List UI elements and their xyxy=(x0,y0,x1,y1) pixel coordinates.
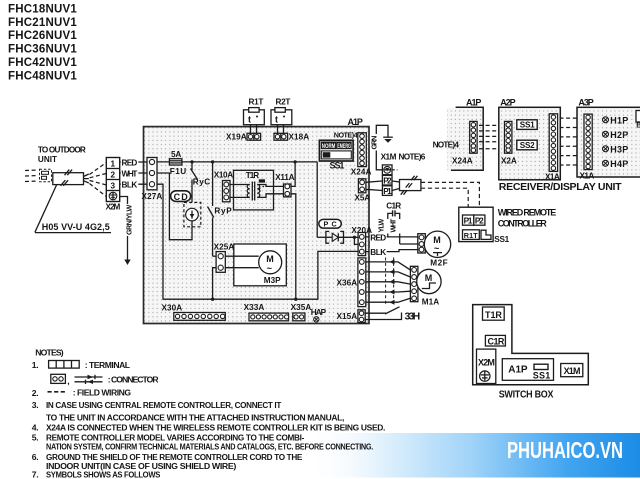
note 5 xyxy=(32,433,373,452)
svg-text:FHC26NUV1: FHC26NUV1 xyxy=(8,30,77,42)
svg-text:NATION SYSTEM, CONFIRM TECHNIC: NATION SYSTEM, CONFIRM TECHNICAL MATERIA… xyxy=(46,442,373,452)
svg-text:RED: RED xyxy=(370,233,386,242)
connector X24A (on A1P) xyxy=(351,133,372,177)
svg-text:t: t xyxy=(248,115,251,125)
wire WHT X2M to X27A xyxy=(120,169,147,179)
svg-text:H2P: H2P xyxy=(610,130,628,140)
svg-text:: TERMINAL: : TERMINAL xyxy=(85,360,130,370)
svg-text:D: D xyxy=(181,192,188,202)
svg-text:H4P: H4P xyxy=(610,159,628,169)
svg-text:SWITCH BOX: SWITCH BOX xyxy=(499,389,554,400)
wire bottom bus N xyxy=(157,184,358,301)
svg-text:NOTE)4: NOTE)4 xyxy=(334,130,358,139)
connector X11A xyxy=(275,162,296,299)
svg-text:T1R: T1R xyxy=(246,171,259,180)
wired remote controller box xyxy=(459,207,510,244)
svg-text:X2M: X2M xyxy=(106,203,121,212)
svg-text:WHT: WHT xyxy=(388,218,397,232)
node bus-X11A xyxy=(293,160,296,163)
svg-text:X25A: X25A xyxy=(214,242,235,251)
svg-text:R2T: R2T xyxy=(276,98,291,107)
svg-text:X18A: X18A xyxy=(289,133,310,142)
svg-text:P2: P2 xyxy=(383,177,392,186)
fan motor M2F xyxy=(418,231,451,268)
note 1 connector symbols xyxy=(51,374,160,386)
X1M in switch box xyxy=(561,364,583,377)
LED HAP xyxy=(311,308,327,322)
svg-text:A2P: A2P xyxy=(500,98,515,108)
svg-text:5A: 5A xyxy=(171,150,181,159)
svg-text:: FIELD WIRING: : FIELD WIRING xyxy=(73,388,132,398)
svg-text:C: C xyxy=(332,220,337,229)
svg-text:PHUHAICO.VN: PHUHAICO.VN xyxy=(507,437,623,463)
svg-text:NOTE)6: NOTE)6 xyxy=(399,153,426,162)
swing motor M1A xyxy=(410,266,441,306)
transformer T1R xyxy=(230,170,284,210)
thermistor R1T xyxy=(244,98,265,134)
svg-text:TO THE UNIT IN ACCORDANCE WITH: TO THE UNIT IN ACCORDANCE WITH THE ATTAC… xyxy=(46,412,344,422)
dashed field wires into X2M xyxy=(90,163,107,197)
wire main bus L xyxy=(157,161,317,163)
X2M in switch box xyxy=(477,349,496,383)
svg-text:BLK: BLK xyxy=(370,248,386,257)
svg-text:H05 VV-U 4G2,5: H05 VV-U 4G2,5 xyxy=(42,222,110,232)
LED H4P xyxy=(603,159,629,169)
svg-text:X1M: X1M xyxy=(381,153,397,162)
svg-text:3.: 3. xyxy=(32,400,38,410)
switch SS1 (A2P) xyxy=(517,120,537,130)
earth wire GRN (A1P) xyxy=(370,125,388,166)
svg-text:X27A: X27A xyxy=(142,192,163,201)
A1P in switch box xyxy=(502,359,553,381)
switch box outline xyxy=(473,305,589,385)
svg-text:X30A: X30A xyxy=(162,303,183,312)
svg-text:UNIT: UNIT xyxy=(38,155,57,164)
svg-text:M3P: M3P xyxy=(264,276,281,285)
svg-text:X33A: X33A xyxy=(244,303,265,312)
thermistor R2T xyxy=(271,98,292,134)
svg-text:YLW: YLW xyxy=(377,218,386,232)
svg-text:RyP: RyP xyxy=(214,207,232,216)
field wiring dashes to remote controller xyxy=(421,182,480,207)
svg-text:R1T: R1T xyxy=(249,98,264,107)
shielded remote cord xyxy=(392,176,421,195)
outdoor-unit stub connector xyxy=(40,169,52,182)
svg-text:IN CASE USING CENTRAL REMOTE C: IN CASE USING CENTRAL REMOTE CONTROLLER,… xyxy=(46,400,282,410)
wire WHT return loop xyxy=(157,173,192,240)
svg-text:X11A: X11A xyxy=(275,173,294,182)
ground symbol xyxy=(383,137,393,143)
svg-text:X1A: X1A xyxy=(580,172,595,181)
connector X20A xyxy=(351,226,372,256)
LED H1P xyxy=(603,116,629,126)
svg-text:M2F: M2F xyxy=(430,259,447,268)
receiver board A2P xyxy=(499,98,561,180)
svg-text:B: B xyxy=(636,121,640,130)
svg-text:C1R: C1R xyxy=(488,337,505,347)
run capacitor pill CD xyxy=(171,191,191,202)
indoor PCB A1P corner (receiver side) xyxy=(433,98,484,171)
watermark banner xyxy=(305,433,640,478)
svg-text:X10A: X10A xyxy=(214,171,233,180)
connector X18A xyxy=(274,133,309,142)
svg-text:P: P xyxy=(324,220,329,229)
diode / phase control element xyxy=(317,162,358,245)
svg-text:FHC36NUV1: FHC36NUV1 xyxy=(8,44,77,56)
connector X1A (A3P) xyxy=(580,114,595,181)
svg-text:P1: P1 xyxy=(464,216,473,225)
svg-text:X19A: X19A xyxy=(226,133,247,142)
svg-text:FHC48NUV1: FHC48NUV1 xyxy=(8,70,77,82)
C1R in switch box xyxy=(485,335,505,346)
fuse F1U 5A xyxy=(169,150,186,176)
svg-text:RECEIVER/DISPLAY UNIT: RECEIVER/DISPLAY UNIT xyxy=(499,182,622,193)
svg-text:SS1: SS1 xyxy=(494,235,509,244)
connector X35A xyxy=(291,303,312,321)
relay contact RyC xyxy=(191,162,211,203)
wire BLK X2M to X27A xyxy=(120,180,147,190)
svg-text:7.: 7. xyxy=(32,469,38,479)
svg-text:X1M: X1M xyxy=(564,366,581,376)
svg-text:5.: 5. xyxy=(32,433,38,443)
svg-text:WHT: WHT xyxy=(122,169,138,178)
capacitor C1R xyxy=(386,202,401,219)
photocoupler PC xyxy=(319,219,342,228)
svg-text:T1R: T1R xyxy=(485,310,502,320)
svg-text:A1P: A1P xyxy=(508,364,528,375)
svg-text:M: M xyxy=(425,273,432,283)
svg-text:P1: P1 xyxy=(383,187,392,196)
push button BS1 (cut) xyxy=(636,111,640,130)
wire fan mid xyxy=(400,243,418,245)
svg-text:FHC18NUV1: FHC18NUV1 xyxy=(8,3,77,15)
note 7 xyxy=(32,469,161,479)
svg-text:2.: 2. xyxy=(32,388,38,398)
harness X36A to M1A xyxy=(366,258,411,307)
note 1 terminal symbol xyxy=(32,360,130,370)
terminal P1 xyxy=(366,186,392,196)
connector X10A xyxy=(214,171,233,202)
svg-text:A1P: A1P xyxy=(466,98,481,108)
display board A3P xyxy=(577,98,640,177)
label H05 VV-U 4G2,5 xyxy=(35,222,111,233)
svg-text:H3P: H3P xyxy=(610,145,628,155)
svg-text:6.: 6. xyxy=(32,452,38,462)
svg-text:X2M: X2M xyxy=(478,358,495,368)
terminal X1M earth xyxy=(376,165,397,175)
svg-text:RED: RED xyxy=(122,158,138,167)
svg-text:FHC21NUV1: FHC21NUV1 xyxy=(8,17,77,29)
svg-text:1.: 1. xyxy=(32,360,38,370)
connector X15A xyxy=(337,310,366,323)
svg-text:NORM: NORM xyxy=(322,144,336,150)
svg-text:X1A: X1A xyxy=(545,172,560,181)
wire RED X2M to X27A xyxy=(120,158,147,168)
wire RED to fan xyxy=(366,233,418,242)
relay contact RyP xyxy=(208,162,233,256)
dashed leads to outdoor unit xyxy=(25,170,38,182)
svg-text:: CONNECTOR: : CONNECTOR xyxy=(108,374,160,384)
svg-text:C: C xyxy=(174,192,181,202)
svg-text:4.: 4. xyxy=(32,423,38,433)
svg-text:M1A: M1A xyxy=(422,297,439,306)
note 6 xyxy=(32,452,303,471)
model list xyxy=(8,3,77,82)
LED H2P xyxy=(603,130,629,140)
svg-text:TO OUTDOOR: TO OUTDOOR xyxy=(38,145,86,154)
svg-text:t: t xyxy=(275,115,278,125)
drain pump motor M3P xyxy=(225,244,286,286)
svg-text:C1R: C1R xyxy=(386,202,401,211)
svg-text:SS1: SS1 xyxy=(330,160,345,170)
LED H3P xyxy=(603,145,629,155)
svg-text:A1P: A1P xyxy=(348,117,363,127)
svg-text:GRN: GRN xyxy=(370,136,379,150)
connector X1A (A2P) xyxy=(545,114,560,182)
svg-text:X35A: X35A xyxy=(291,303,312,312)
switch SS2 (A2P) xyxy=(517,140,537,150)
svg-text:WIRED REMOTE: WIRED REMOTE xyxy=(498,208,556,218)
svg-text:CONTROLLER: CONTROLLER xyxy=(498,219,547,229)
connector X24A (receiver side) xyxy=(452,121,477,165)
svg-text:X24A IS CONNECTED WHEN THE WIR: X24A IS CONNECTED WHEN THE WIRELESS REMO… xyxy=(46,423,385,433)
wire BLK to fan xyxy=(366,248,418,257)
label WIRED REMOTE CONTROLLER xyxy=(498,208,556,229)
svg-text:X2A: X2A xyxy=(501,157,517,166)
svg-text:X24A: X24A xyxy=(452,157,473,166)
note 2 field wiring xyxy=(32,388,132,399)
svg-text:H1P: H1P xyxy=(610,116,628,126)
svg-text:A3P: A3P xyxy=(578,98,593,108)
label X1M NOTE)6 xyxy=(381,153,426,162)
svg-text:SS2: SS2 xyxy=(520,141,535,150)
svg-text:R1T: R1T xyxy=(464,231,478,240)
svg-text:HAP: HAP xyxy=(311,308,327,317)
float switch 33H xyxy=(365,307,420,323)
field cable H05 VV-U 4G2,5 xyxy=(53,170,89,186)
connector X25A xyxy=(213,242,235,299)
svg-text:BLK: BLK xyxy=(122,181,138,190)
svg-text:P2: P2 xyxy=(475,216,484,225)
wire YLW xyxy=(377,218,388,237)
svg-text:X24A: X24A xyxy=(351,167,372,176)
svg-text:GRN/YLW: GRN/YLW xyxy=(125,204,134,235)
field wiring dashes X24A to X2A xyxy=(479,125,503,148)
node bus-RyP xyxy=(211,160,214,163)
svg-text:SYMBOLS SHOWS AS FOLLOWS: SYMBOLS SHOWS AS FOLLOWS xyxy=(46,469,161,479)
terminal block X2M xyxy=(106,158,119,202)
svg-text:FHC42NUV1: FHC42NUV1 xyxy=(8,57,77,69)
connector X30A xyxy=(162,303,226,320)
svg-text:33H: 33H xyxy=(405,310,420,322)
drain pump load (dashed) xyxy=(184,202,201,226)
switch SS1 NORM/EMERG xyxy=(319,140,353,170)
note 4 xyxy=(32,423,385,433)
svg-text:SS1: SS1 xyxy=(533,371,550,381)
cable leader line xyxy=(35,185,57,233)
svg-text:X5A: X5A xyxy=(355,193,371,202)
connector X2A xyxy=(501,121,517,165)
connector X27A xyxy=(147,158,157,190)
svg-text:,: , xyxy=(67,376,69,386)
indoor unit PCB A1P board xyxy=(144,127,370,324)
earth wire GRN/YLW with arrow xyxy=(120,197,134,266)
svg-text:F1U: F1U xyxy=(170,167,186,176)
svg-text:X15A: X15A xyxy=(337,312,358,321)
svg-text:~: ~ xyxy=(267,264,272,274)
svg-text:NOTE)4: NOTE)4 xyxy=(433,141,460,150)
svg-text:NOTES): NOTES) xyxy=(35,348,63,358)
connector X36A xyxy=(337,258,366,307)
wire WHT xyxy=(388,218,399,244)
T1R in switch box xyxy=(483,307,505,320)
field wiring dashes X1A to X1A xyxy=(560,118,584,165)
connector X33A xyxy=(244,303,289,321)
connector X19A xyxy=(226,133,261,142)
svg-text:t: t xyxy=(259,188,261,194)
label TO OUTDOOR UNIT xyxy=(38,145,86,164)
note 3 xyxy=(32,400,344,422)
svg-text:M: M xyxy=(266,254,273,264)
node bus-RyC xyxy=(190,160,193,163)
svg-text:EMERG: EMERG xyxy=(337,144,351,150)
connector X5A xyxy=(355,179,371,203)
svg-text:SS1: SS1 xyxy=(520,121,535,130)
svg-text:RyC: RyC xyxy=(193,178,210,187)
terminal P2 xyxy=(366,175,392,185)
svg-text:X36A: X36A xyxy=(337,279,358,288)
